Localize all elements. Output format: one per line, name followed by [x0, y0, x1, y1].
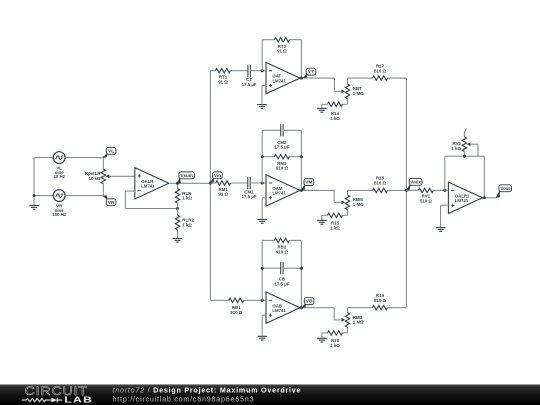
wire RBM to R18 — [348, 189, 373, 191]
wire RV2 top stub — [464, 129, 466, 132]
junction OAM inverting — [261, 182, 264, 185]
wire RT2 right lead — [289, 39, 301, 41]
wire R17 to bus — [388, 77, 407, 79]
wire VR to pot — [65, 195, 103, 197]
wire RLR2 top lead — [177, 209, 179, 216]
wire VT output — [300, 77, 335, 79]
potentiometer RpotLR — [101, 169, 135, 184]
wire feedback up — [261, 40, 263, 71]
wire feedback down mid — [300, 130, 302, 190]
wire RBB top lead — [347, 308, 349, 313]
svg-text:1 MΩ: 1 MΩ — [353, 320, 364, 325]
junction OAM output — [300, 189, 303, 192]
svg-text:1 kΩ: 1 kΩ — [182, 196, 192, 201]
svg-text:LM741: LM741 — [272, 78, 286, 83]
label VR — [55, 204, 64, 213]
wire RBM to R15 — [342, 214, 348, 216]
svg-text:1 MΩ: 1 MΩ — [353, 91, 364, 96]
svg-text:LM741: LM741 — [141, 184, 155, 189]
svg-text:tnorto72 / Design Project: Max: tnorto72 / Design Project: Maximum Overd… — [113, 385, 302, 394]
wire feedback up bottom — [261, 240, 263, 300]
node Vout — [496, 185, 511, 198]
svg-text:VL: VL — [108, 148, 114, 154]
wire feedback down — [300, 40, 302, 78]
wire feedback bottom — [125, 208, 177, 210]
voltage source VR — [53, 190, 65, 202]
ground RLR2 — [173, 230, 183, 242]
label RpotLR — [85, 171, 102, 181]
svg-text:Vmix: Vmix — [410, 179, 421, 184]
wire feedback down mixer — [483, 156, 485, 198]
logo CIRCUIT text — [25, 384, 88, 398]
potentiometer RV2 — [462, 137, 478, 152]
resistor R19 — [373, 306, 388, 310]
wire VL to pot — [65, 157, 103, 159]
wire down to RBT wiper — [334, 78, 336, 91]
node Vin — [210, 172, 222, 183]
wire RBM top lead — [347, 190, 349, 195]
label R14 — [330, 111, 340, 121]
label R15 — [330, 221, 340, 231]
junction OALR1 output — [483, 196, 486, 199]
wire RT2 left lead — [262, 39, 274, 41]
ground R14 — [317, 104, 327, 112]
label RM2 — [276, 161, 289, 171]
op-amp OAB — [266, 292, 300, 323]
resistor RT1 — [216, 69, 231, 73]
label RB1 — [230, 305, 243, 315]
wire RM1 left lead — [210, 182, 215, 184]
junction Vsum — [176, 182, 179, 185]
label RT2 — [277, 44, 287, 54]
label RM1 — [218, 187, 228, 197]
label RBB — [353, 315, 364, 325]
svg-text:910 Ω: 910 Ω — [276, 166, 289, 171]
wire VR left lead — [34, 195, 53, 197]
svg-text:91 Ω: 91 Ω — [218, 192, 228, 197]
label CT — [242, 77, 257, 87]
wire R16 to ground — [322, 332, 328, 334]
label CM2 — [274, 140, 289, 150]
ground left — [29, 196, 39, 210]
resistor R17 — [373, 76, 388, 80]
svg-text:17.5 µF: 17.5 µF — [274, 145, 289, 150]
wire down to RBB wiper — [333, 308, 335, 320]
wire RLR top lead — [177, 183, 179, 188]
wire RV2 bottom lead — [463, 152, 465, 157]
svg-text:17.5 µF: 17.5 µF — [242, 82, 257, 87]
ground R15 — [317, 215, 327, 224]
wire R14 to ground — [322, 103, 329, 105]
resistor R16 — [328, 331, 343, 335]
capacitor CB — [281, 262, 283, 274]
voltage source VL — [53, 152, 65, 164]
resistor RB2 — [274, 238, 289, 242]
wire feedback up mid — [261, 130, 263, 183]
resistor RV1 — [418, 188, 433, 192]
node VT — [303, 68, 316, 78]
junction OAT inverting — [261, 69, 264, 72]
svg-text:1 MΩ: 1 MΩ — [353, 202, 364, 207]
wire mix bus — [405, 78, 407, 308]
wire OALR1 plus stub — [441, 204, 449, 206]
junction RLR RLR2 — [176, 207, 179, 210]
wire VM output — [300, 189, 334, 191]
node Vmix — [406, 178, 422, 190]
resistor RLR — [175, 189, 179, 204]
ground OAM — [257, 198, 267, 224]
wire OALR minus stub — [125, 190, 134, 192]
wire RV2 wiper down — [477, 144, 479, 156]
wire R15 to ground — [322, 214, 329, 216]
label RT1 — [218, 75, 228, 85]
logo LAB text — [64, 396, 93, 405]
junction RM2 left — [261, 155, 264, 158]
ground R16 — [317, 333, 327, 342]
wire feedback top mixer — [445, 155, 485, 157]
op-amp OAT — [266, 62, 300, 93]
junction Vin — [209, 182, 212, 185]
wire RBT top lead — [347, 78, 349, 84]
resistor RM1 — [216, 181, 231, 185]
potentiometer RBB — [334, 313, 350, 328]
svg-text:VR: VR — [108, 200, 115, 206]
ground OAB — [257, 315, 267, 340]
svg-text:10 kΩ: 10 kΩ — [89, 176, 102, 181]
svg-text:1 kΩ: 1 kΩ — [330, 225, 340, 230]
svg-text:http://circuitlab.com/c6n98ap6: http://circuitlab.com/c6n98ap6e65n3 — [113, 395, 255, 404]
wire CM1 to OAM — [250, 182, 266, 184]
svg-text:LM741: LM741 — [272, 308, 286, 313]
wire RM1 to CM1 — [231, 182, 248, 184]
op-amp OALR1 — [448, 182, 482, 213]
svg-text:10 Hz: 10 Hz — [53, 174, 65, 179]
svg-text:Vin: Vin — [214, 173, 221, 179]
svg-text:VB: VB — [306, 299, 313, 305]
capacitor CT — [248, 65, 250, 77]
svg-text:LM741: LM741 — [272, 191, 286, 196]
potentiometer RBT — [335, 84, 350, 99]
logo resistor squiggle — [22, 399, 52, 402]
node VR — [103, 195, 116, 206]
wire CB right lead — [283, 267, 302, 269]
svg-text:510 Ω: 510 Ω — [374, 298, 387, 303]
wire VL left lead — [34, 157, 53, 159]
wire RBM bottom lead — [347, 210, 349, 216]
label VL — [55, 166, 64, 175]
wire feedback up mixer — [444, 156, 446, 190]
svg-text:VT: VT — [308, 69, 314, 75]
wire OALR output — [169, 182, 211, 184]
svg-text:510 Ω: 510 Ω — [374, 181, 387, 186]
svg-text:91 Ω: 91 Ω — [218, 79, 228, 84]
resistor RT2 — [274, 38, 289, 42]
svg-text:1 kΩ: 1 kΩ — [330, 343, 340, 348]
resistor RLR2 — [175, 215, 179, 230]
node VB — [302, 298, 314, 308]
wire RB2 left lead — [262, 239, 274, 241]
resistor RB1 — [229, 298, 244, 302]
junction OALR1 inverting — [443, 189, 446, 192]
svg-text:Vout: Vout — [500, 186, 510, 191]
junction RV2 bottom — [463, 155, 466, 158]
svg-text:LAB: LAB — [64, 396, 93, 405]
label RBT — [353, 86, 364, 96]
svg-text:1 kΩ: 1 kΩ — [451, 146, 461, 151]
svg-text:17.5 µF: 17.5 µF — [274, 282, 289, 287]
wire OAT plus stub — [262, 85, 266, 87]
logo diode — [51, 398, 57, 403]
label RLR2 — [182, 218, 194, 228]
wire RBB to R19 — [348, 307, 373, 309]
label RLR — [182, 191, 192, 201]
potentiometer RBM — [334, 195, 350, 210]
label R17 — [374, 63, 387, 73]
svg-text:1 kΩ: 1 kΩ — [330, 116, 340, 121]
wire RV2 top lead — [463, 132, 465, 137]
wire CM2 left lead — [262, 129, 281, 131]
svg-text:510 Ω: 510 Ω — [374, 68, 387, 73]
svg-text:VM: VM — [305, 180, 312, 186]
wire Vout — [482, 197, 496, 199]
svg-text:17.5 µF: 17.5 µF — [242, 194, 257, 199]
wire OAM plus stub — [262, 197, 266, 199]
wire RV1 left lead — [406, 189, 418, 191]
junction CB left — [261, 267, 264, 270]
op-amp OAM — [266, 175, 300, 206]
wire CB left lead — [262, 267, 281, 269]
wire RBT to R17 — [348, 77, 373, 79]
wire pot top lead — [102, 158, 104, 170]
svg-text:Vsum: Vsum — [181, 173, 193, 178]
wire down to RBM wiper — [333, 190, 335, 202]
wire feedback left vertical — [124, 191, 126, 208]
wire main input bus — [209, 71, 211, 301]
wire RB1 left lead — [210, 299, 228, 301]
wire R18 to bus — [388, 189, 407, 191]
junction Vmix — [405, 189, 408, 192]
resistor R18 — [373, 188, 388, 192]
svg-text:LM741: LM741 — [455, 198, 469, 203]
resistor R15 — [328, 213, 343, 217]
wire feedback down bottom — [300, 240, 302, 307]
label CB — [274, 277, 289, 287]
label RV2 — [451, 141, 461, 151]
svg-text:910 Ω: 910 Ω — [276, 249, 289, 254]
junction CB right — [300, 267, 303, 270]
node Vsum — [178, 172, 195, 184]
junction RM2 right — [300, 155, 303, 158]
node VM — [301, 179, 313, 191]
capacitor CM2 — [281, 124, 283, 136]
wire RB2 right lead — [289, 239, 301, 241]
resistor RM2 — [274, 155, 289, 159]
junction OAB output — [300, 306, 303, 309]
node VL — [103, 147, 116, 157]
label RV1 — [420, 194, 433, 204]
label RBM — [353, 197, 364, 207]
wire OAB plus stub — [262, 314, 266, 316]
label R16 — [330, 338, 340, 348]
ground OAT — [257, 86, 267, 109]
label R19 — [374, 293, 387, 303]
svg-text:510 Ω: 510 Ω — [420, 199, 433, 204]
ground OALR1 — [436, 205, 446, 231]
junction left ground — [33, 194, 36, 197]
wire CM2 right lead — [283, 129, 302, 131]
wire RLR bottom lead — [177, 203, 179, 208]
label RB2 — [276, 245, 289, 255]
op-amp OALR — [135, 168, 169, 199]
svg-text:100 Hz: 100 Hz — [52, 212, 67, 217]
svg-text:1 kΩ: 1 kΩ — [182, 222, 192, 227]
svg-text:91 Ω: 91 Ω — [277, 49, 287, 54]
wire RM2 right lead — [289, 156, 301, 158]
wire RV1 to OALR1 — [433, 189, 448, 191]
wire RB1 to OAB — [244, 299, 266, 301]
wire RM2 left lead — [262, 156, 274, 158]
label R18 — [374, 176, 387, 186]
resistor R14 — [328, 102, 343, 106]
label CM1 — [242, 189, 257, 199]
wire left vertical — [33, 158, 35, 196]
svg-text:910 Ω: 910 Ω — [230, 310, 243, 315]
wire R19 to bus — [388, 307, 407, 309]
wire CT to OAT — [250, 70, 266, 72]
junction OAB inverting — [261, 299, 264, 302]
junction OAT output — [300, 77, 303, 80]
wire RBB to R16 — [342, 332, 348, 334]
wire pot bottom lead — [102, 183, 104, 195]
wire RBT to R14 — [342, 103, 348, 105]
wire RBT bottom lead — [347, 99, 349, 105]
wire RBB bottom lead — [347, 327, 349, 333]
capacitor CM1 — [248, 177, 250, 189]
wire RT1 to CT — [231, 70, 249, 72]
wire RT1 left lead — [210, 70, 215, 72]
wire VB output — [300, 307, 334, 309]
